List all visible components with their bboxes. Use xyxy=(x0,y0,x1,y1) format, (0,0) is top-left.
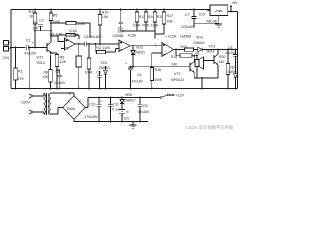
svg-text:DW001: DW001 xyxy=(134,51,145,55)
svg-text:VT3: VT3 xyxy=(209,45,216,49)
svg-text:+: + xyxy=(101,100,103,104)
svg-text:VD1: VD1 xyxy=(101,61,108,65)
svg-text:C8: C8 xyxy=(228,46,233,50)
svg-text:R2: R2 xyxy=(34,21,39,25)
svg-text:10u: 10u xyxy=(118,27,124,31)
svg-text:100K: 100K xyxy=(133,24,142,28)
svg-text:+: + xyxy=(36,26,38,30)
svg-text:C10: C10 xyxy=(89,102,95,106)
svg-text:22u16V: 22u16V xyxy=(54,81,66,85)
svg-text:R5: R5 xyxy=(53,13,58,17)
svg-text:VD2: VD2 xyxy=(136,45,143,49)
svg-text:100K: 100K xyxy=(85,71,94,75)
svg-text:LM358: LM358 xyxy=(68,33,79,37)
svg-text:VD5: VD5 xyxy=(125,93,132,97)
svg-text:470u25V: 470u25V xyxy=(85,115,99,119)
svg-text:C04: C04 xyxy=(3,56,9,60)
svg-text:C6: C6 xyxy=(96,71,101,75)
svg-text:VT1: VT1 xyxy=(37,56,44,60)
svg-text:C5 20u16V: C5 20u16V xyxy=(84,35,102,39)
svg-text:47K: 47K xyxy=(18,77,25,81)
svg-text:1K: 1K xyxy=(29,15,34,19)
svg-text:+: + xyxy=(125,62,127,66)
svg-text:100K: 100K xyxy=(154,78,163,82)
svg-text:R6: R6 xyxy=(60,56,65,60)
svg-text:1: 1 xyxy=(155,43,157,47)
svg-text:C1: C1 xyxy=(26,39,31,43)
svg-text:DW001: DW001 xyxy=(194,41,205,45)
svg-text:VT2: VT2 xyxy=(174,72,180,76)
svg-text:U: U xyxy=(69,92,72,96)
svg-text:0.1u: 0.1u xyxy=(112,107,119,111)
svg-text:220u16V: 220u16V xyxy=(181,25,195,29)
svg-text:220V~: 220V~ xyxy=(22,101,33,105)
svg-text:DW001: DW001 xyxy=(228,70,239,74)
svg-text:R20: R20 xyxy=(219,55,225,59)
svg-text:47u16V: 47u16V xyxy=(225,51,237,55)
svg-text:R8: R8 xyxy=(44,71,49,75)
svg-text:47u16V: 47u16V xyxy=(138,110,150,114)
svg-text:+ IC2A: + IC2A xyxy=(165,35,177,39)
svg-text:C11: C11 xyxy=(113,102,119,106)
svg-text:78L06: 78L06 xyxy=(206,19,218,24)
svg-text:C4: C4 xyxy=(137,73,141,77)
svg-text:100K: 100K xyxy=(77,22,86,26)
svg-text:C4: C4 xyxy=(56,70,60,74)
svg-text:VD4: VD4 xyxy=(230,65,237,69)
svg-text:9013: 9013 xyxy=(207,49,215,53)
svg-text:MPSA13: MPSA13 xyxy=(171,78,184,82)
svg-text:DW001: DW001 xyxy=(99,66,110,70)
svg-text:+12V: +12V xyxy=(176,94,185,98)
svg-text:C9: C9 xyxy=(143,104,148,108)
svg-text:+6V: +6V xyxy=(231,1,238,5)
svg-text:C7: C7 xyxy=(185,13,190,17)
svg-text:10K: 10K xyxy=(167,20,174,24)
svg-text:R19: R19 xyxy=(181,45,187,49)
svg-text:VD3: VD3 xyxy=(196,36,203,40)
svg-text:240: 240 xyxy=(172,62,178,66)
svg-text:240: 240 xyxy=(219,60,225,64)
svg-text:10K: 10K xyxy=(60,60,67,64)
svg-text:+: + xyxy=(32,41,34,45)
svg-text:IC2B: IC2B xyxy=(128,33,136,37)
svg-text:2W06: 2W06 xyxy=(67,107,76,111)
svg-text:C3: C3 xyxy=(39,18,44,22)
svg-text:DW001: DW001 xyxy=(124,99,135,103)
svg-text:470K: 470K xyxy=(142,24,151,28)
svg-text:12V: 12V xyxy=(124,117,131,121)
svg-text:R3: R3 xyxy=(29,10,34,14)
svg-text:R10: R10 xyxy=(102,10,109,14)
svg-text:LM358: LM358 xyxy=(113,34,124,38)
svg-text:47u16V: 47u16V xyxy=(132,80,144,84)
svg-text:R11 110K: R11 110K xyxy=(96,46,111,50)
svg-text:IC5: IC5 xyxy=(199,13,205,17)
svg-text:10K: 10K xyxy=(102,15,109,19)
svg-text:R16: R16 xyxy=(155,68,161,72)
svg-text:R1: R1 xyxy=(18,70,23,74)
svg-text:R18: R18 xyxy=(171,55,177,59)
svg-text:100K: 100K xyxy=(151,24,160,28)
svg-text:47u16V: 47u16V xyxy=(25,52,37,56)
svg-text:100: 100 xyxy=(43,75,49,79)
svg-text:CSDN @针绿体不忘呼吸: CSDN @针绿体不忘呼吸 xyxy=(186,124,234,131)
svg-text:9014: 9014 xyxy=(37,61,45,65)
svg-text:LM358: LM358 xyxy=(180,35,191,39)
svg-text:R17: R17 xyxy=(167,14,174,18)
